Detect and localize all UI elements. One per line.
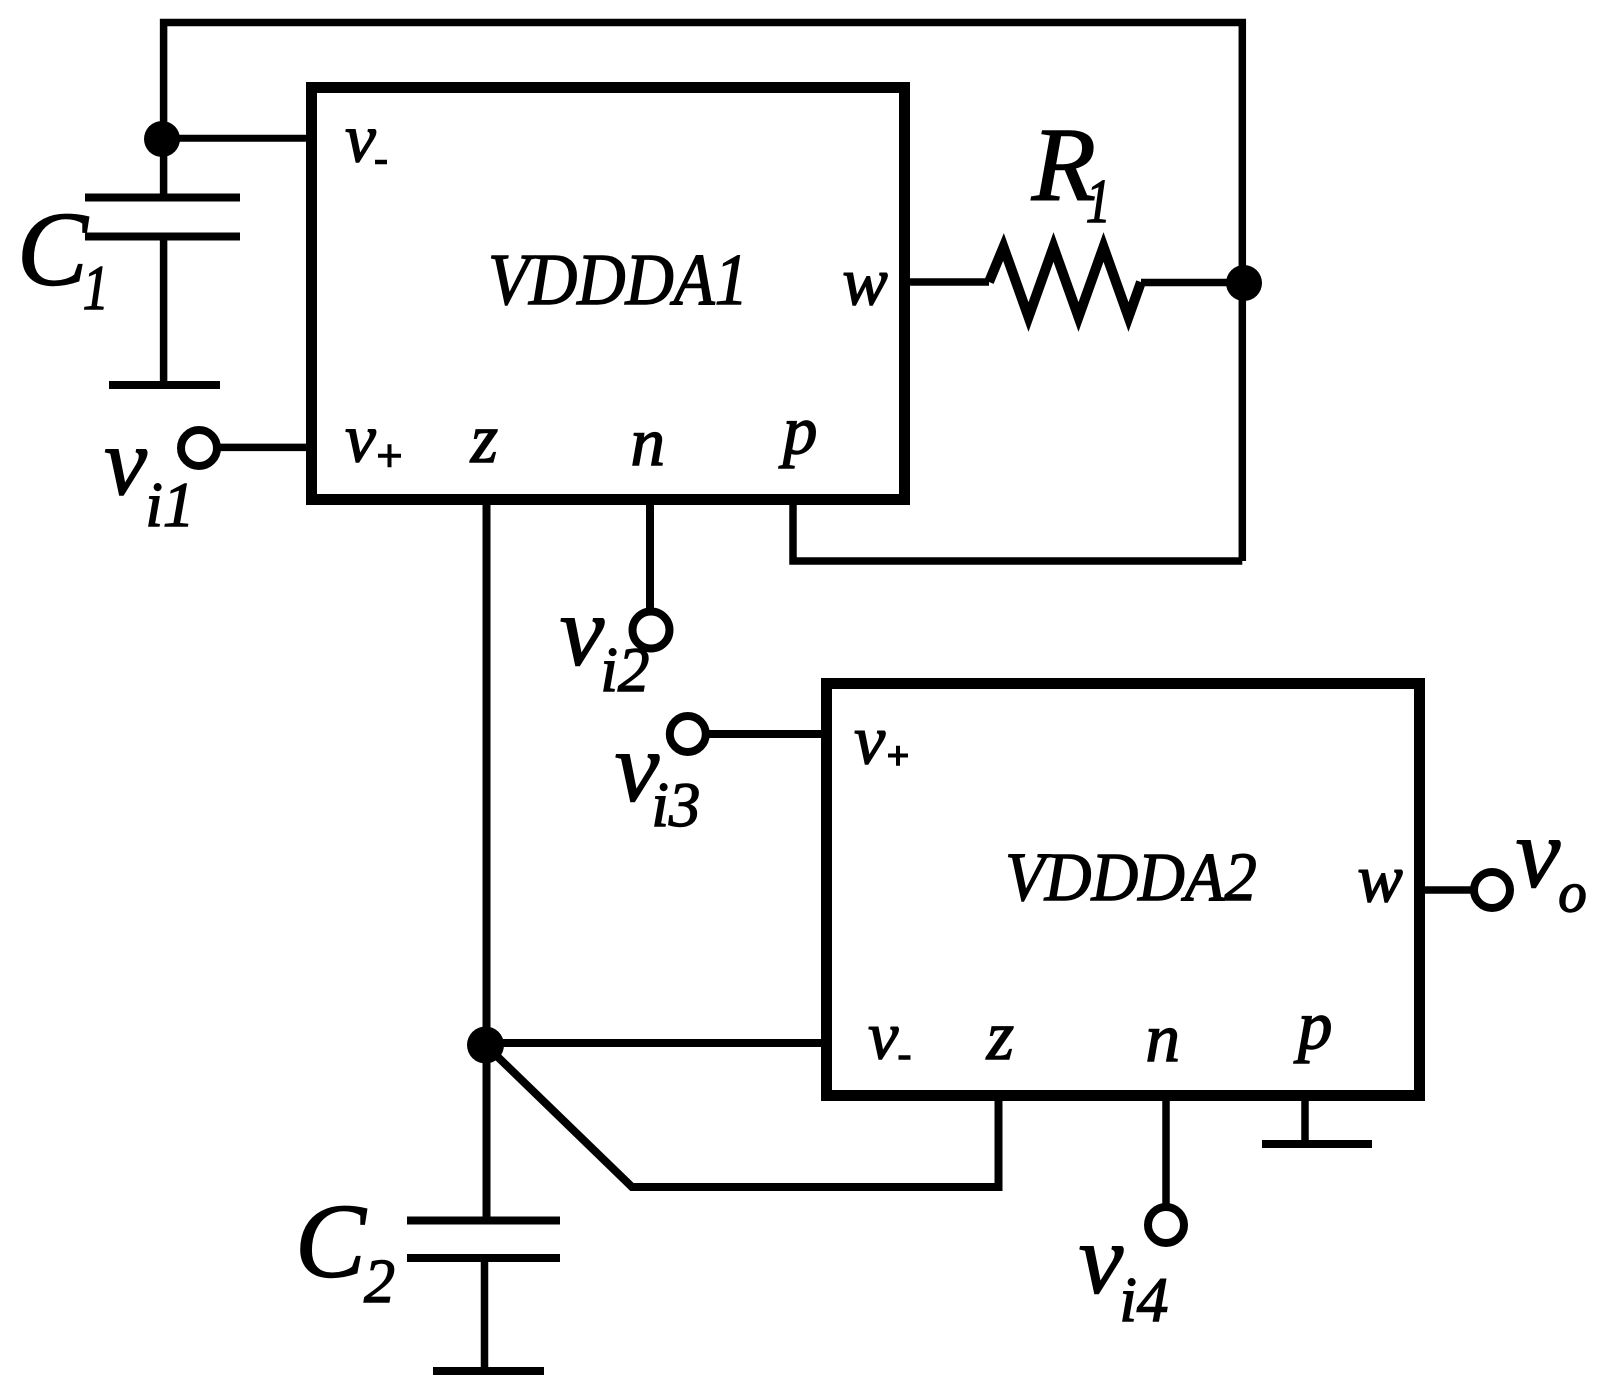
wire p-pin loop of U1 (793, 500, 1242, 561)
wire U2 z pin loop to node C (486, 1045, 999, 1187)
svg-text:w: w (842, 244, 887, 320)
wire top feedback loop (left vertical, top horizontal, right vertical) (164, 22, 1243, 561)
svg-text:2: 2 (364, 1248, 395, 1316)
svg-text:z: z (470, 401, 498, 478)
wire U2 w pin to vo (1425, 886, 1474, 894)
ground (U2 p pin) (1262, 1140, 1372, 1148)
svg-text:1: 1 (83, 252, 109, 323)
terminal vi3 (670, 716, 706, 752)
svg-text:i3: i3 (651, 770, 700, 840)
pin label v+ (U2) (854, 703, 908, 780)
svg-text:VDDDA2: VDDDA2 (1005, 839, 1256, 915)
svg-text:i1: i1 (145, 470, 194, 540)
pin label v- (U1) (345, 101, 387, 177)
pin label v- (U2) (868, 998, 910, 1074)
svg-text:v: v (345, 101, 376, 177)
wire node A to U1 v- pin (162, 135, 311, 142)
svg-text:w: w (1357, 841, 1402, 917)
label C1 (17, 190, 109, 323)
ground (C1) (109, 381, 220, 389)
svg-text:p: p (1293, 987, 1333, 1063)
label vi1 (104, 408, 194, 540)
label vi3 (615, 711, 701, 840)
svg-text:n: n (1146, 1000, 1181, 1076)
wire U1 n pin (646, 500, 654, 612)
svg-text:v: v (345, 401, 376, 477)
svg-text:i4: i4 (1119, 1265, 1168, 1335)
label R1 (1031, 105, 1111, 236)
terminal vo (1474, 872, 1510, 908)
op-amp block U2 VDDDA2 (827, 684, 1420, 1096)
wire vi3 to U2 v+ pin (706, 730, 826, 738)
svg-text:p: p (778, 392, 818, 468)
svg-text:VDDDA1: VDDDA1 (488, 239, 748, 320)
capacitor C2 (407, 1221, 560, 1372)
label C2 (295, 1182, 395, 1316)
wire resistor to node B (1141, 279, 1244, 287)
node C (z1 / v-2 / C2 junction dot) (467, 1027, 504, 1064)
terminal vi1 (181, 430, 217, 466)
svg-text:v: v (560, 575, 605, 686)
label vi4 (1079, 1203, 1169, 1335)
op-amp block U1 VDDDA1 (312, 88, 905, 500)
wire U2 p pin to ground (1301, 1096, 1309, 1144)
label vo (1516, 797, 1587, 924)
wire vi1 to U1 v+ pin (217, 444, 311, 452)
wire U1 z pin down to node C and C2 (483, 500, 491, 1220)
node A (C1 / v- junction dot) (144, 121, 180, 157)
svg-text:C: C (17, 190, 89, 307)
svg-text:i2: i2 (600, 635, 649, 705)
svg-text:o: o (1558, 862, 1587, 925)
svg-text:n: n (631, 404, 666, 480)
svg-text:v: v (854, 703, 886, 780)
svg-text:v: v (1516, 797, 1561, 908)
svg-text:1: 1 (1086, 168, 1111, 236)
resistor R1 (989, 247, 1141, 317)
terminal vi2 (633, 612, 670, 649)
svg-text:v: v (868, 998, 899, 1074)
wire U2 n pin (1162, 1096, 1170, 1207)
svg-text:v: v (104, 408, 147, 515)
node B (R1 / feedback junction dot) (1226, 265, 1262, 301)
svg-text:v: v (1079, 1203, 1124, 1314)
pin label v+ (U1) (345, 401, 401, 477)
wire U1 w pin to resistor (910, 278, 989, 286)
terminal vi4 (1148, 1207, 1184, 1243)
svg-text:C: C (295, 1182, 367, 1299)
wire node C to U2 v- pin (485, 1039, 826, 1047)
capacitor C1 (85, 139, 240, 385)
ground (C2) (433, 1367, 544, 1375)
svg-text:z: z (986, 998, 1014, 1075)
label vi2 (560, 575, 650, 705)
